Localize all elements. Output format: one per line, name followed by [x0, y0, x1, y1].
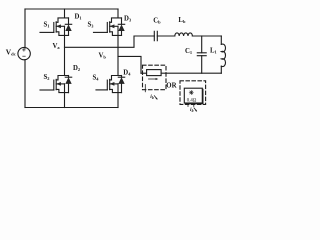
diode D2: [65, 76, 71, 93]
wire left leg bottom: [64, 84, 66, 108]
wire bottom rail: [25, 107, 118, 109]
lamp symbol: [189, 90, 193, 94]
capacitor C1: [197, 36, 206, 73]
wire right leg middle: [117, 26, 119, 75]
svg-text:Va: Va: [53, 43, 61, 50]
diode D4: [118, 76, 124, 93]
wire load left: [141, 72, 147, 74]
wire right leg top: [117, 9, 119, 18]
diode D1: [65, 18, 71, 36]
svg-text:Cb: Cb: [153, 17, 161, 24]
transistor S4: [96, 76, 122, 93]
wire load right / node B: [161, 72, 221, 74]
wire node A: [192, 35, 221, 37]
wire left rail lower: [24, 60, 26, 108]
svg-text:D3: D3: [124, 16, 132, 23]
current arrow ib inside box: [149, 78, 157, 80]
dashed box lamp option: [180, 81, 206, 105]
resistor load box: [147, 70, 162, 76]
lamp electrode stubs: [188, 103, 194, 107]
diode D3: [118, 18, 124, 36]
inductor L1: [221, 36, 225, 73]
svg-text:ib: ib: [150, 94, 154, 100]
wire right leg bottom: [117, 84, 119, 108]
svg-text:L1: L1: [210, 48, 217, 55]
svg-text:Vdc: Vdc: [6, 48, 16, 57]
transistor S1: [40, 18, 69, 36]
svg-text:D2: D2: [73, 65, 80, 72]
wire node Vb down to load: [118, 56, 141, 73]
svg-text:Vb: Vb: [99, 52, 107, 59]
capacitor Cb: [154, 31, 157, 40]
wire left rail upper: [24, 9, 26, 48]
label lamp current: [190, 107, 197, 113]
svg-text:Lb: Lb: [178, 17, 186, 24]
wire stub left of ib label: [144, 85, 146, 92]
svg-text:OR: OR: [166, 83, 176, 90]
svg-text:ib: ib: [190, 107, 194, 113]
label ib current arrow: [150, 94, 157, 100]
wire Cb to Lb: [157, 35, 175, 37]
transistor S2: [40, 76, 69, 93]
svg-text:S4: S4: [93, 75, 100, 82]
inductor Lb: [175, 33, 193, 36]
wire node Va to Cb: [65, 36, 155, 47]
svg-text:D4: D4: [123, 70, 131, 77]
svg-text:D1: D1: [75, 14, 82, 21]
svg-text:S3: S3: [88, 21, 95, 28]
voltage source Vdc: [18, 47, 30, 59]
dashed box resistor option: [143, 65, 167, 90]
svg-text:S2: S2: [44, 74, 50, 81]
wire left leg middle: [64, 26, 66, 75]
transistor S3: [94, 18, 122, 36]
svg-text:S1: S1: [44, 22, 50, 29]
lamp model box: [184, 88, 203, 103]
wire top rail: [25, 8, 118, 10]
wire left leg top: [64, 9, 66, 18]
svg-text:C1: C1: [185, 48, 192, 55]
